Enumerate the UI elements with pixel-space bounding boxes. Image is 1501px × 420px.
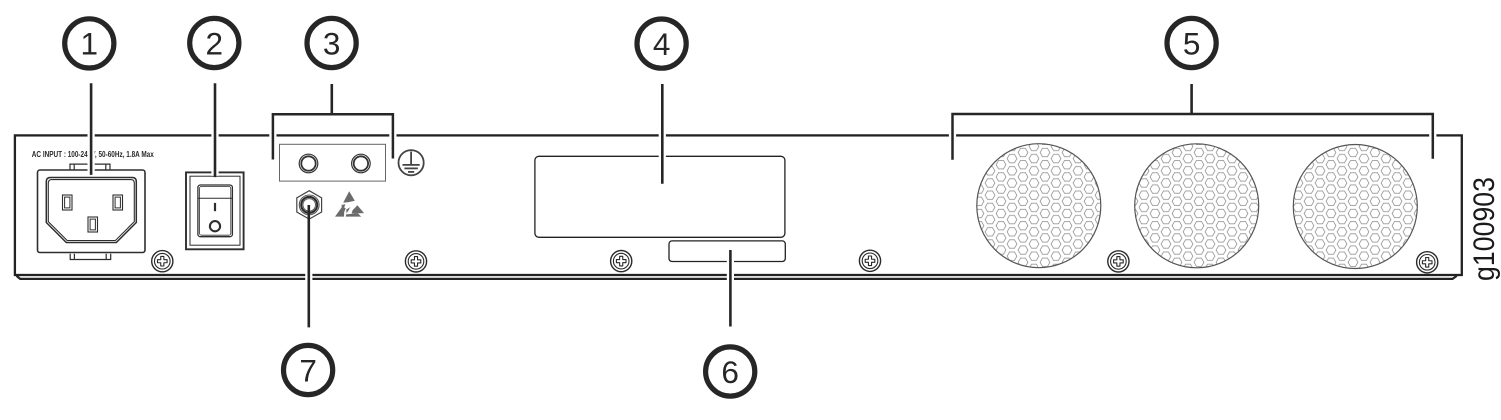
leader line 7 xyxy=(307,205,310,327)
pin N xyxy=(113,195,123,210)
rocker inner xyxy=(200,187,231,236)
svg-text:6: 6 xyxy=(721,354,739,390)
pin L xyxy=(63,195,73,210)
leader line 3 xyxy=(330,84,333,114)
callout 7 xyxy=(284,345,333,394)
inlet bottom tab xyxy=(70,254,111,260)
svg-text:4: 4 xyxy=(653,26,671,62)
bracket 3 xyxy=(273,114,393,159)
callout 5 xyxy=(1167,18,1216,67)
fan vent 1 xyxy=(977,144,1101,268)
svg-text:g100903: g100903 xyxy=(1468,177,1501,281)
leader line 6 xyxy=(729,250,732,327)
bracket 5 xyxy=(953,114,1433,160)
rocker divider xyxy=(198,197,232,199)
switch inner bezel xyxy=(190,176,240,245)
AC power inlet xyxy=(38,164,146,259)
leader line 5 xyxy=(1190,84,1193,114)
protective earth symbol xyxy=(399,150,424,175)
power switch xyxy=(186,172,244,249)
callout 2 xyxy=(190,18,239,67)
leader line 2 xyxy=(214,83,217,177)
screw 3 xyxy=(611,251,632,272)
chassis bottom flange xyxy=(17,276,1457,279)
inlet top tab xyxy=(70,164,110,170)
ESD warning triangle xyxy=(335,191,364,216)
callout 6 xyxy=(706,347,755,396)
bracket hole right xyxy=(352,154,371,173)
screw 6 xyxy=(1417,252,1438,273)
cable tie bracket plate xyxy=(280,144,386,181)
callout 1 xyxy=(65,19,114,68)
inlet face outer outline xyxy=(46,178,136,243)
leader line 4 xyxy=(661,84,664,184)
pin E center xyxy=(88,217,98,232)
screw 1 xyxy=(152,251,173,272)
chassis rear panel xyxy=(15,135,1462,275)
leader line 1 xyxy=(90,83,93,175)
svg-text:5: 5 xyxy=(1183,25,1201,61)
inlet face inner outline xyxy=(48,180,134,241)
inlet outer bezel xyxy=(38,170,146,253)
switch outer bezel xyxy=(186,172,244,249)
svg-text:7: 7 xyxy=(299,352,317,388)
leader halos xyxy=(91,85,1433,327)
serial number plate xyxy=(669,241,785,262)
bracket hole left xyxy=(299,154,318,173)
fan vent 2 xyxy=(1135,144,1259,268)
callout 4 xyxy=(637,19,686,68)
switch O mark xyxy=(210,221,220,231)
switch I mark xyxy=(214,203,216,211)
serial id label plate xyxy=(535,156,785,237)
svg-text:2: 2 xyxy=(206,25,224,61)
screw 2 xyxy=(405,251,426,272)
rocker outer xyxy=(198,185,233,237)
fan vent 3 xyxy=(1293,145,1417,269)
callout 3 xyxy=(307,18,356,67)
screw 4 xyxy=(859,250,880,271)
ESD grounding hex nut xyxy=(297,191,322,219)
svg-text:3: 3 xyxy=(323,25,341,61)
screw 5 xyxy=(1108,251,1129,272)
svg-text:1: 1 xyxy=(81,26,99,62)
